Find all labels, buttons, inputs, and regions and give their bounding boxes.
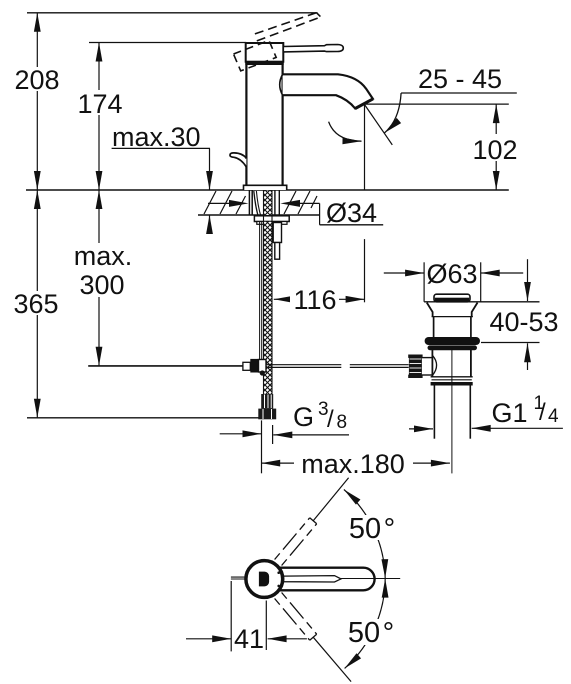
G3/8 hex nut bbox=[258, 409, 276, 420]
wire top reference line (spout max height) bbox=[27, 12, 318, 14]
dimension 365 bbox=[10, 190, 63, 418]
second hose stub bbox=[273, 223, 281, 243]
plan screw dots bbox=[277, 571, 280, 574]
horizontal rod right part with break bbox=[266, 365, 409, 368]
spout bbox=[283, 74, 373, 108]
svg-text:Ø63: Ø63 bbox=[426, 259, 477, 289]
label 50 upper bbox=[349, 513, 400, 545]
dimension max.180 bbox=[261, 449, 450, 479]
svg-text:8: 8 bbox=[337, 412, 348, 433]
dimension 41 bbox=[186, 581, 307, 654]
svg-text:41: 41 bbox=[234, 624, 264, 654]
25-45 leader arc with arrowhead bbox=[385, 93, 402, 133]
label G3/8 bbox=[293, 399, 347, 433]
bell sides bbox=[427, 303, 478, 317]
drain valve body bbox=[431, 346, 473, 348]
rod fitting / ball joint bbox=[243, 359, 266, 376]
flange top line bbox=[424, 301, 539, 303]
dimension max.300 bbox=[68, 190, 140, 366]
pull rod vertical bbox=[259, 222, 261, 361]
countertop underside line bbox=[198, 214, 320, 216]
spout mouth aerator line bbox=[355, 99, 373, 109]
dimension max.30 label and leader bbox=[112, 122, 210, 234]
plug cap bbox=[434, 294, 470, 302]
wire 25-45 underline bbox=[401, 92, 517, 94]
pop-up rod knob on body bbox=[230, 153, 246, 167]
pull rod horizontal with max300 reference bbox=[88, 365, 243, 367]
dimension 208 bbox=[13, 13, 61, 190]
svg-text:4: 4 bbox=[548, 406, 559, 427]
spout butt rounded end bbox=[280, 74, 283, 95]
faucet cap bbox=[245, 43, 284, 65]
upper dashed lever outline bbox=[275, 518, 317, 566]
dimension Ø34 bbox=[208, 198, 383, 228]
dimension 40-53 bbox=[481, 259, 564, 370]
svg-text:50°: 50° bbox=[349, 513, 395, 545]
svg-text:365: 365 bbox=[13, 289, 58, 319]
wire spout-outlet level line bbox=[364, 103, 508, 105]
label 50 lower bbox=[348, 617, 400, 649]
plan left outlet stub bbox=[231, 576, 248, 578]
upper 50 degree lever axis bbox=[313, 478, 348, 521]
countertop hatching right bbox=[284, 191, 317, 214]
label G1 1/4 bbox=[492, 393, 560, 428]
G3/8 hose connector ridged nut bbox=[261, 394, 273, 409]
hose curve inside shank bbox=[254, 191, 259, 219]
countertop hatching left bbox=[204, 191, 246, 214]
braided supply hose bbox=[264, 191, 273, 395]
svg-text:max.30: max.30 bbox=[112, 122, 201, 152]
svg-text:208: 208 bbox=[14, 65, 59, 95]
lower 50 degree arc bbox=[345, 579, 386, 669]
lower 50 degree lever axis bbox=[313, 637, 351, 681]
valve cartridge bulge bbox=[432, 355, 436, 375]
dimension 174 bbox=[75, 43, 125, 191]
valve knurled knob bbox=[409, 355, 422, 379]
svg-text:/: / bbox=[327, 406, 334, 433]
faucet base flange bbox=[244, 185, 287, 190]
locknut under counter bbox=[254, 216, 289, 222]
stream direction diagonal bbox=[365, 105, 393, 145]
365 lower reference line bbox=[27, 417, 259, 419]
svg-text:116: 116 bbox=[293, 285, 336, 315]
wire cap-top extension line bbox=[89, 42, 246, 44]
svg-text:174: 174 bbox=[77, 89, 122, 119]
dashed lever raised position bbox=[255, 13, 321, 41]
plan circle (body) bbox=[246, 561, 283, 598]
shank through countertop bbox=[249, 190, 279, 215]
svg-text:G: G bbox=[293, 402, 314, 432]
G3/8 dimension arrows bbox=[220, 433, 262, 435]
stream swivel curved arrow bbox=[329, 122, 362, 142]
dimension 116 bbox=[274, 285, 365, 315]
svg-text:102: 102 bbox=[472, 135, 517, 165]
svg-text:25 - 45: 25 - 45 bbox=[418, 64, 502, 94]
G3/8 extension lines bbox=[261, 420, 263, 473]
plan lever bbox=[272, 568, 375, 591]
drain tailpipe bbox=[433, 386, 435, 439]
faucet body column bbox=[246, 65, 282, 185]
G1 1/4 extension arrows bbox=[409, 428, 433, 430]
drain coupling bbox=[431, 376, 473, 378]
svg-text:40-53: 40-53 bbox=[489, 307, 558, 337]
svg-text:Ø34: Ø34 bbox=[326, 198, 377, 228]
dimension 102 bbox=[469, 104, 522, 190]
plan centerline right bbox=[341, 578, 400, 580]
rubber seal ring bbox=[425, 337, 480, 345]
plan lever slot bbox=[284, 576, 342, 582]
countertop surface line bbox=[26, 189, 509, 191]
upper 50 degree arc bbox=[344, 490, 385, 579]
drain neck bbox=[433, 317, 435, 338]
svg-text:/: / bbox=[539, 399, 546, 426]
dimension Ø63 bbox=[384, 259, 523, 302]
plan hub (lever base) bbox=[259, 572, 269, 587]
svg-text:max.: max. bbox=[74, 241, 133, 271]
lever handle (horizontal) bbox=[283, 45, 343, 52]
svg-text:50°: 50° bbox=[348, 617, 394, 649]
svg-text:max.180: max.180 bbox=[301, 449, 405, 479]
svg-text:300: 300 bbox=[79, 270, 124, 300]
drain center line bbox=[451, 348, 453, 474]
dashed cap rotated position bbox=[234, 41, 277, 71]
lower dashed lever outline bbox=[275, 593, 317, 641]
valve stem bbox=[422, 357, 433, 359]
spout outlet projection vertical line bbox=[364, 105, 366, 190]
svg-text:G1: G1 bbox=[492, 398, 528, 428]
